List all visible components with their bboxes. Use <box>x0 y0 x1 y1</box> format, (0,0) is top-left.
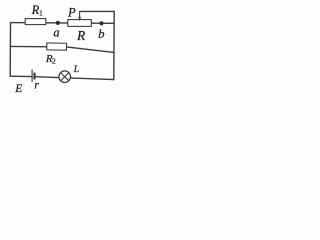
node a <box>56 21 60 25</box>
lamp L <box>59 71 71 83</box>
battery E: short thick plate <box>33 73 35 80</box>
resistor R2 <box>47 43 67 50</box>
rheostat R body <box>68 20 92 27</box>
wire: middle branch (R2) <box>10 46 114 52</box>
svg-text:a: a <box>53 25 59 39</box>
svg-text:b: b <box>98 27 104 41</box>
wire: slider top wire <box>80 10 115 12</box>
wire: left rail <box>9 23 11 76</box>
svg-text:1: 1 <box>39 9 43 18</box>
svg-text:R: R <box>76 28 86 43</box>
battery E: long plate <box>31 69 33 82</box>
wire: top branch <box>11 22 115 25</box>
wire: bottom right (battery to lamp to right corner) <box>35 77 114 80</box>
resistor R1 <box>25 19 46 25</box>
node b <box>99 21 103 25</box>
svg-text:r: r <box>34 79 39 91</box>
slider P (wiper arrow) <box>78 11 81 21</box>
wire: bottom left (battery feed) <box>10 75 32 77</box>
wire: right rail <box>113 11 115 79</box>
background <box>0 0 124 112</box>
svg-text:2: 2 <box>52 57 56 66</box>
svg-text:L: L <box>73 65 79 75</box>
svg-text:E: E <box>14 83 22 95</box>
svg-text:P: P <box>67 6 76 20</box>
